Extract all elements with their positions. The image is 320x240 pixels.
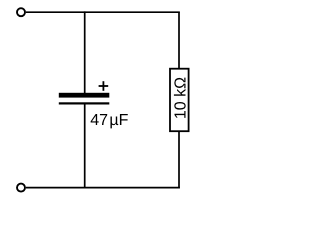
wire: top rail from T1 to resistor branch	[26, 11, 180, 13]
capacitor C1 negative plate (thin)	[59, 102, 110, 104]
wire: bottom rail from T2 to resistor branch	[26, 187, 180, 189]
wire: capacitor branch lower segment	[84, 104, 86, 188]
resistor R1 (box symbol)	[170, 69, 189, 132]
polarity plus sign	[99, 81, 109, 91]
capacitor C1 positive plate (thick)	[59, 93, 110, 98]
svg-text:47µF: 47µF	[90, 112, 128, 129]
wire: capacitor branch upper segment	[84, 11, 86, 93]
terminal T2 (bottom-left)	[17, 184, 25, 192]
terminal T1 (top-left)	[17, 8, 25, 16]
svg-text:10 kΩ: 10 kΩ	[172, 77, 189, 119]
wire: resistor branch upper segment	[178, 12, 180, 68]
wire: resistor branch lower segment	[178, 131, 180, 188]
